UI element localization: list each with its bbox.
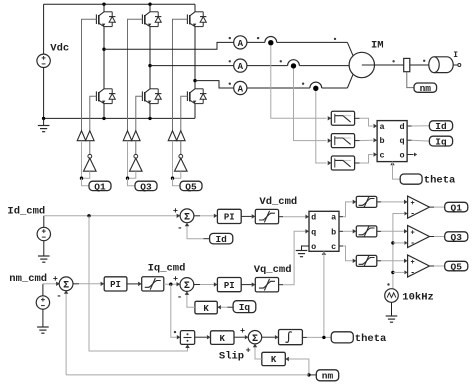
block K1 (Iq feedback gain) bbox=[195, 301, 217, 314]
label IM bbox=[371, 40, 384, 52]
junction: carrier to CMP2 bbox=[391, 241, 394, 244]
svg-text:-: - bbox=[410, 268, 415, 277]
polarity dot phase C sensor bbox=[302, 83, 304, 85]
pin q (U2) bbox=[311, 227, 316, 237]
block K3 (slip gain) bbox=[211, 331, 235, 345]
wire: o input ground lead bbox=[302, 246, 310, 251]
polarity dot phase A ammeter bbox=[229, 37, 231, 39]
svg-text:Σ: Σ bbox=[184, 281, 190, 292]
svg-text:K: K bbox=[203, 304, 209, 314]
wire: nm feedback to SUM2 bbox=[64, 290, 68, 375]
wire: NOT output to lower buffer Q3 bbox=[135, 141, 137, 155]
wire: shaft to load bbox=[410, 64, 429, 66]
label 10kHz bbox=[402, 291, 434, 303]
svg-text:d: d bbox=[311, 213, 316, 223]
minus sign sum2 bbox=[56, 291, 61, 301]
wire: SUM1 to PI1 bbox=[194, 214, 218, 218]
svg-text:Vd_cmd: Vd_cmd bbox=[259, 196, 297, 208]
svg-text:o: o bbox=[399, 151, 404, 161]
svg-text:A: A bbox=[238, 84, 244, 94]
wire: leg C lower emitter bbox=[194, 104, 196, 119]
label Vd_cmd bbox=[259, 196, 297, 208]
node: phase A output bbox=[102, 48, 105, 51]
polarity dot phase B sensor bbox=[280, 60, 282, 62]
wire: SUM3 to PI3 bbox=[194, 282, 218, 286]
svg-text:Q5: Q5 bbox=[185, 181, 197, 192]
wire: NOT input Q3 bbox=[128, 171, 136, 178]
pin b bbox=[379, 136, 384, 146]
mechanical load TL bbox=[429, 57, 453, 73]
pin a (U2) bbox=[331, 213, 336, 223]
op-amp comparator CMP (Q3) bbox=[408, 226, 430, 248]
wire: nm to K4 bbox=[285, 357, 309, 375]
ammeter A (phase C) bbox=[234, 81, 247, 94]
wire: DC bus negative rail bbox=[44, 117, 195, 119]
svg-text:Vq_cmd: Vq_cmd bbox=[254, 264, 292, 276]
divider DIV (Iq/Id) bbox=[180, 331, 194, 345]
polarity dot at motor phase A bbox=[334, 38, 336, 40]
wire: carrier to CMP1 - bbox=[393, 212, 408, 289]
svg-text:A: A bbox=[238, 62, 244, 72]
plus sign sum4 b bbox=[246, 345, 251, 355]
transistor Q1 (upper IGBT leg A) with freewheel diode bbox=[96, 12, 115, 27]
svg-text:-: - bbox=[410, 239, 415, 248]
svg-text:c: c bbox=[331, 242, 336, 252]
net label Q3 (PWM out) bbox=[445, 232, 468, 243]
wire: limiter2 to SUM3 bbox=[164, 282, 180, 286]
wire: Id_cmd to divider denominator bbox=[89, 216, 190, 351]
transistor Q6 (lower IGBT leg C) with freewheel diode bbox=[187, 89, 206, 104]
pin d bbox=[399, 122, 404, 132]
wire: buffer input Q3 bbox=[127, 141, 129, 179]
wire: DC bus positive rail bbox=[44, 3, 195, 5]
buffer (upper gating Q1) bbox=[77, 131, 86, 141]
wire: SUM4 to integrator bbox=[262, 335, 279, 339]
wire: o output stub bbox=[407, 153, 417, 157]
wire: Q1 lower gate drive bbox=[90, 96, 97, 131]
svg-text:-: - bbox=[410, 210, 415, 219]
net label Q3 (gate command) bbox=[135, 181, 157, 192]
net label Iq (feedback tag) bbox=[233, 301, 256, 313]
plus sign sum3 bbox=[173, 274, 178, 284]
svg-text:Id: Id bbox=[215, 234, 227, 245]
ground (nm_cmd source) bbox=[37, 309, 49, 333]
svg-text:nm_cmd: nm_cmd bbox=[9, 273, 47, 285]
summer SUM4 (slip + speed) bbox=[248, 331, 261, 345]
net label Q1 (PWM out) bbox=[445, 202, 468, 213]
wire: leg B lower emitter bbox=[149, 104, 151, 119]
junction: Id_cmd branch bbox=[87, 214, 90, 217]
wire: PI1 to limiter1 bbox=[241, 214, 255, 218]
svg-text:+: + bbox=[240, 326, 245, 336]
svg-text:Id_cmd: Id_cmd bbox=[7, 206, 45, 218]
buffer (upper gating Q3) bbox=[123, 131, 132, 141]
inverter NOT gate (Q5 complement) bbox=[175, 154, 188, 171]
minus sign sum3 bbox=[177, 292, 182, 302]
svg-text:theta: theta bbox=[424, 175, 456, 187]
svg-text:o: o bbox=[311, 242, 316, 252]
junction: leg B top bbox=[148, 2, 151, 5]
motor IM (induction machine) bbox=[349, 52, 374, 77]
svg-text:Q1: Q1 bbox=[451, 202, 463, 213]
wire: Q3 lower gate drive bbox=[136, 96, 143, 131]
junction: Q3 gating net bbox=[126, 177, 129, 180]
net label theta (output) bbox=[331, 332, 353, 343]
svg-text:Iq_cmd: Iq_cmd bbox=[148, 263, 186, 275]
junction: Q1 gating net bbox=[80, 177, 83, 180]
wire: LIMB to comparator CMP2 + bbox=[377, 229, 408, 233]
wire: phase A from leg bbox=[104, 42, 234, 49]
ammeter A (phase A) bbox=[234, 36, 247, 49]
transistor Q3 (upper IGBT leg B) with freewheel diode bbox=[142, 12, 161, 27]
net label nm (bottom) bbox=[316, 370, 338, 382]
wire: phase A ammeter to sensor bbox=[247, 41, 265, 43]
current sensor ISB (bump) bbox=[288, 60, 300, 69]
label Vq_cmd bbox=[254, 264, 292, 276]
wire: CMP output to Q1 tag bbox=[429, 206, 444, 208]
pin q bbox=[399, 136, 404, 146]
net label Iq (measured) bbox=[429, 136, 452, 147]
node: phase C output bbox=[193, 79, 196, 82]
wire: buffer input Q1 bbox=[81, 141, 83, 179]
net label theta (to U1) bbox=[400, 174, 422, 184]
wire: load output stub bbox=[453, 64, 457, 66]
net label Id (measured) bbox=[429, 121, 452, 132]
wire: b output to LIMB bbox=[339, 229, 356, 233]
current sensor ISA (bump) bbox=[265, 36, 277, 45]
svg-text:d: d bbox=[399, 122, 404, 132]
svg-text:K: K bbox=[220, 334, 226, 344]
wire: leg C midpoint bbox=[194, 27, 196, 89]
wire: filter C to c input bbox=[355, 152, 378, 163]
junction: nm net bbox=[307, 373, 310, 376]
wire: phase B ammeter to sensor bbox=[247, 65, 288, 67]
wire: a output to LIMA bbox=[339, 200, 356, 217]
svg-text:Q3: Q3 bbox=[140, 181, 152, 192]
limiter LIMB (phase b mod) bbox=[356, 226, 377, 238]
polarity dot phase A sensor bbox=[257, 37, 259, 39]
buffer (upper gating Q5) bbox=[168, 131, 177, 141]
summer SUM3 (Iq error) bbox=[180, 278, 194, 293]
svg-text:theta: theta bbox=[355, 333, 387, 345]
transistor Q5 (upper IGBT leg C) with freewheel diode bbox=[187, 12, 206, 27]
junction: carrier to CMP3 bbox=[391, 271, 394, 274]
label theta (output) bbox=[355, 333, 387, 345]
minus sign sum1 bbox=[177, 224, 182, 234]
junction: theta net bbox=[322, 336, 325, 339]
wire: Id feedback to SUM1 bbox=[185, 223, 210, 239]
wire: PI2 to limiter2 bbox=[127, 282, 142, 286]
wire: Q5 tag to gating net bbox=[173, 178, 181, 186]
filter FB (low-pass) bbox=[331, 134, 354, 148]
arrow into filter B bbox=[328, 138, 332, 142]
junction: DC bus negative at Vdc bbox=[42, 117, 45, 120]
wire: PI3 to limiter3 bbox=[241, 282, 255, 286]
wire: sensor A output bbox=[271, 45, 327, 118]
svg-text:a: a bbox=[331, 213, 336, 223]
wire: Vd_cmd to d input bbox=[279, 214, 309, 218]
wire: Vdc positive lead bbox=[43, 4, 45, 54]
inverter NOT gate (Q1 complement) bbox=[84, 154, 97, 171]
wire: Q5 upper gate drive bbox=[173, 19, 188, 131]
net label Q1 (gate command) bbox=[89, 181, 111, 192]
wire: leg B midpoint bbox=[149, 27, 151, 89]
ammeter A (phase B) bbox=[234, 59, 247, 72]
svg-text:A: A bbox=[238, 39, 244, 49]
wire: leg A lower emitter bbox=[103, 104, 105, 119]
wire: filter A to a input bbox=[355, 118, 378, 128]
label Iq_cmd bbox=[148, 263, 186, 275]
wire: phase C to motor bbox=[322, 87, 348, 89]
svg-text:-: - bbox=[177, 292, 182, 302]
wire: U2 theta input bbox=[322, 251, 326, 337]
wire: d output to Id tag bbox=[407, 125, 429, 127]
wire: K4 to SUM4 bbox=[253, 344, 262, 359]
polarity dot carrier bbox=[387, 283, 389, 285]
block PI2 (speed PI) bbox=[104, 277, 127, 291]
wire: U1 theta input bbox=[390, 162, 400, 180]
transistor Q2 (lower IGBT leg A) with freewheel diode bbox=[96, 89, 115, 104]
current sensor ISC (bump) bbox=[310, 82, 322, 91]
net label Id (feedback tag) bbox=[210, 233, 233, 245]
wire: phase C diagonal into motor bbox=[347, 74, 353, 88]
wire: speed sensor output bbox=[407, 72, 414, 88]
junction: leg A emitter to rail bbox=[102, 117, 105, 120]
wire: phase A to motor bbox=[277, 41, 348, 43]
node: load output terminal bbox=[458, 64, 461, 67]
wire: Q1 upper gate drive bbox=[82, 19, 97, 131]
svg-text:PI: PI bbox=[224, 281, 235, 291]
wire: Q3 tag to gating net bbox=[128, 178, 136, 186]
svg-text:Slip: Slip bbox=[219, 350, 244, 362]
wire: Id_cmd to sum bbox=[44, 214, 180, 228]
svg-text:K: K bbox=[271, 355, 277, 365]
wire: Q3 upper gate drive bbox=[128, 19, 143, 131]
wire: K3 to SUM4 bbox=[234, 335, 248, 339]
wire: Vq_cmd to q input bbox=[279, 229, 309, 285]
svg-text:10kHz: 10kHz bbox=[402, 291, 434, 303]
wire: Iq_cmd to divider bbox=[171, 284, 181, 339]
source VCARR triangular carrier bbox=[385, 289, 399, 303]
wire: Iq tag to K1 bbox=[217, 305, 233, 309]
svg-text:+: + bbox=[410, 259, 414, 267]
wire: phase B from leg bbox=[150, 65, 234, 67]
junction: Iq_cmd branch bbox=[169, 283, 172, 286]
label Slip bbox=[219, 350, 244, 362]
svg-text:q: q bbox=[311, 227, 316, 237]
svg-text:IM: IM bbox=[371, 40, 384, 52]
net label Q5 (PWM out) bbox=[445, 261, 468, 272]
op-amp comparator CMP (Q1) bbox=[408, 196, 430, 218]
label I (load torque) bbox=[453, 51, 458, 60]
wire: leg C upper collector bbox=[194, 4, 196, 12]
wire: leg B upper collector bbox=[149, 4, 151, 12]
svg-text:Σ: Σ bbox=[252, 334, 258, 345]
ground (U2 o input) bbox=[296, 246, 308, 257]
net label Q5 (gate command) bbox=[180, 181, 202, 192]
wire: phase B to motor bbox=[299, 65, 349, 67]
source Id_cmd (DC) bbox=[37, 227, 50, 240]
svg-text:nm: nm bbox=[420, 83, 432, 94]
arrow into filter A bbox=[328, 116, 332, 120]
svg-text:-: - bbox=[177, 224, 182, 234]
node: phase B output bbox=[148, 64, 151, 67]
wire: phase C from leg bbox=[195, 81, 234, 88]
ground (carrier source) bbox=[386, 302, 398, 322]
limiter LIM2 (Iq_cmd) bbox=[142, 277, 164, 291]
svg-text:+: + bbox=[246, 345, 251, 355]
wire: carrier to CMP3 - bbox=[393, 270, 408, 274]
polarity dot divider input bbox=[174, 331, 176, 333]
wire: motor shaft bbox=[375, 64, 404, 66]
block INT1 integrator (theta) bbox=[279, 330, 303, 345]
wire: integrator to theta tag bbox=[302, 336, 331, 338]
summer SUM2 (speed error) bbox=[59, 277, 73, 292]
wire: Q1 tag to gating net bbox=[82, 178, 90, 186]
wire: sensor C output bbox=[316, 91, 327, 163]
buffer (lower gating Q5) bbox=[177, 131, 186, 141]
limiter LIMC (phase c mod) bbox=[356, 255, 377, 267]
pin c (U2) bbox=[331, 242, 336, 252]
inverter NOT gate (Q3 complement) bbox=[130, 154, 143, 171]
label nm_cmd bbox=[9, 273, 47, 285]
plus sign sum4 a bbox=[240, 326, 245, 336]
svg-text:I: I bbox=[453, 51, 458, 60]
svg-text:q: q bbox=[399, 136, 404, 146]
svg-text:Vdc: Vdc bbox=[50, 43, 69, 55]
source nm_cmd (DC) bbox=[36, 296, 49, 309]
junction: Q5 gating net bbox=[171, 177, 174, 180]
svg-text:Id: Id bbox=[435, 121, 447, 132]
arrow into filter C bbox=[328, 161, 332, 165]
svg-text:Q3: Q3 bbox=[451, 232, 463, 243]
buffer (lower gating Q3) bbox=[132, 131, 141, 141]
label Id_cmd bbox=[7, 206, 45, 218]
svg-text:Iq: Iq bbox=[435, 137, 447, 148]
svg-text:+: + bbox=[53, 274, 58, 284]
svg-text:Σ: Σ bbox=[63, 280, 69, 291]
wire: nm feedback rail bbox=[66, 374, 309, 376]
wire: leg A midpoint bbox=[103, 27, 105, 89]
filter FA (low-pass) bbox=[331, 111, 354, 125]
label theta (U1) bbox=[424, 175, 456, 187]
plus sign sum1 bbox=[173, 206, 178, 216]
svg-text:PI: PI bbox=[224, 213, 235, 223]
wire: NOT input Q1 bbox=[82, 171, 90, 178]
svg-text:+: + bbox=[173, 206, 178, 216]
pin d (U2) bbox=[311, 213, 316, 223]
ground (Id_cmd source) bbox=[38, 241, 50, 263]
svg-text:+: + bbox=[410, 200, 414, 208]
wire: filter B to b input bbox=[355, 138, 378, 142]
junction: leg A top bbox=[102, 2, 105, 5]
block U2 dq-to-abc transform bbox=[309, 211, 339, 251]
svg-text:Σ: Σ bbox=[184, 212, 190, 223]
svg-text:b: b bbox=[331, 227, 336, 237]
svg-text:a: a bbox=[379, 122, 384, 132]
wire: NOT input Q5 bbox=[173, 171, 181, 178]
wire: LIMA to comparator CMP1 + bbox=[377, 200, 408, 204]
wire: nm_cmd to sum bbox=[43, 282, 60, 296]
source Vdc (DC voltage source) bbox=[37, 54, 50, 67]
svg-text:nm: nm bbox=[322, 371, 334, 382]
transistor Q4 (lower IGBT leg B) with freewheel diode bbox=[142, 89, 161, 104]
speed sensor bbox=[404, 58, 410, 71]
block U1 abc-to-dq transform bbox=[377, 121, 407, 162]
pin a bbox=[379, 122, 384, 132]
wire: c output to LIMC bbox=[339, 246, 356, 263]
svg-text:+: + bbox=[410, 229, 414, 237]
wire: NOT output to lower buffer Q5 bbox=[180, 141, 182, 155]
net label nm (speed, top) bbox=[414, 83, 437, 94]
wire: K1 to SUM3 bbox=[185, 291, 195, 307]
wire: Vdc negative lead bbox=[43, 68, 45, 119]
pin o (U2) bbox=[311, 242, 316, 252]
limiter LIMA (phase a mod) bbox=[356, 196, 377, 208]
wire: CMP output to Q3 tag bbox=[429, 236, 444, 238]
filter FC (low-pass) bbox=[331, 156, 354, 170]
limiter LIM3 (Vq_cmd) bbox=[255, 278, 278, 292]
pin c bbox=[379, 151, 384, 161]
junction: leg B emitter to rail bbox=[148, 117, 151, 120]
svg-text:PI: PI bbox=[110, 280, 121, 290]
svg-text:c: c bbox=[379, 151, 384, 161]
svg-text:+: + bbox=[173, 274, 178, 284]
svg-text:Iq: Iq bbox=[239, 302, 251, 313]
pin o bbox=[399, 151, 404, 161]
wire: nm tag stub bbox=[309, 374, 316, 376]
polarity dot shaft (load) bbox=[423, 60, 425, 62]
wire: phase A diagonal into motor bbox=[347, 42, 353, 56]
pin b (U2) bbox=[331, 227, 336, 237]
wire: carrier to CMP2 - bbox=[393, 241, 408, 245]
ground (DC bus) bbox=[38, 118, 50, 131]
limiter LIM1 (Vd_cmd) bbox=[255, 209, 278, 223]
polarity dot shaft (sensor) bbox=[392, 60, 394, 62]
block PI3 (q-axis current PI) bbox=[217, 278, 241, 292]
svg-text:Q5: Q5 bbox=[451, 261, 463, 272]
svg-text:Q1: Q1 bbox=[94, 181, 106, 192]
polarity dot phase C ammeter bbox=[229, 83, 231, 85]
wire: Q5 lower gate drive bbox=[181, 96, 188, 131]
wire: divider to K3 bbox=[195, 335, 211, 339]
wire: LIMC to comparator CMP3 + bbox=[377, 259, 408, 263]
wire: phase C ammeter to sensor bbox=[247, 87, 310, 89]
svg-text:-: - bbox=[56, 291, 61, 301]
svg-text:b: b bbox=[379, 136, 384, 146]
wire: NOT output to lower buffer Q1 bbox=[89, 141, 91, 155]
wire: SUM2 to PI2 bbox=[73, 282, 105, 286]
buffer (lower gating Q1) bbox=[86, 131, 95, 141]
wire: CMP output to Q5 tag bbox=[429, 265, 444, 267]
wire: sensor B output bbox=[294, 69, 327, 141]
block PI1 (d-axis current PI) bbox=[217, 209, 241, 223]
wire: q output to Iq tag bbox=[407, 139, 429, 142]
wire: leg A upper collector bbox=[103, 4, 105, 12]
polarity dot phase B ammeter bbox=[229, 60, 231, 62]
block K4 (speed to elec freq gain) bbox=[262, 352, 286, 365]
summer SUM1 (Id error) bbox=[180, 209, 194, 223]
op-amp comparator CMP (Q5) bbox=[408, 255, 430, 277]
plus sign sum2 bbox=[53, 274, 58, 284]
label Vdc bbox=[50, 43, 69, 55]
wire: buffer input Q5 bbox=[172, 141, 174, 179]
